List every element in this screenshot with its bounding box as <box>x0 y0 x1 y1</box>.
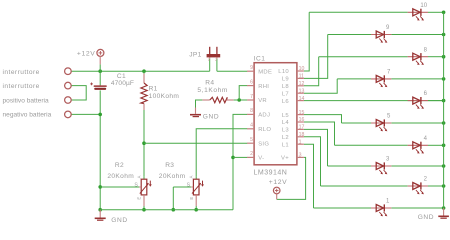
svg-text:L2: L2 <box>282 135 289 141</box>
svg-text:15: 15 <box>299 110 305 116</box>
svg-text:RLO: RLO <box>258 127 271 133</box>
svg-text:1: 1 <box>299 139 302 145</box>
svg-text:R4: R4 <box>205 80 214 87</box>
svg-text:1: 1 <box>208 58 210 62</box>
svg-text:A: A <box>136 175 141 178</box>
svg-text:S: S <box>187 182 191 188</box>
svg-text:4: 4 <box>250 123 253 129</box>
svg-text:16: 16 <box>299 117 305 123</box>
svg-text:L1: L1 <box>282 142 289 148</box>
svg-text:V+: V+ <box>281 156 289 162</box>
svg-text:L9: L9 <box>282 77 289 83</box>
svg-text:+12V: +12V <box>269 179 287 186</box>
svg-text:MDE: MDE <box>258 69 272 75</box>
svg-text:ADJ: ADJ <box>258 113 270 119</box>
svg-text:13: 13 <box>299 88 305 94</box>
svg-text:L8: L8 <box>282 84 290 90</box>
svg-text:4700µF: 4700µF <box>111 80 134 87</box>
svg-text:E: E <box>137 197 142 200</box>
svg-text:2: 2 <box>250 151 253 157</box>
svg-text:SIG: SIG <box>258 141 269 147</box>
svg-text:+12V: +12V <box>77 50 95 57</box>
svg-text:GND: GND <box>111 217 127 224</box>
svg-text:L3: L3 <box>282 128 290 134</box>
svg-text:20Kohm: 20Kohm <box>159 173 186 180</box>
svg-text:2: 2 <box>215 58 217 62</box>
svg-text:5,1Kohm: 5,1Kohm <box>197 87 228 94</box>
svg-text:positivo batteria: positivo batteria <box>3 97 50 104</box>
svg-text:17: 17 <box>299 125 305 131</box>
svg-text:GND: GND <box>203 113 219 120</box>
svg-text:IC1: IC1 <box>254 56 265 63</box>
svg-text:11: 11 <box>299 74 304 80</box>
svg-text:negativo batteria: negativo batteria <box>3 111 52 118</box>
svg-text:100Kohm: 100Kohm <box>149 93 180 100</box>
svg-text:GND: GND <box>418 214 434 221</box>
svg-text:L7: L7 <box>282 91 289 97</box>
svg-text:12: 12 <box>299 81 305 87</box>
svg-text:V-: V- <box>258 156 264 162</box>
svg-text:R2: R2 <box>115 162 124 169</box>
svg-text:R1: R1 <box>149 85 158 92</box>
svg-text:interruttore: interruttore <box>3 83 40 90</box>
svg-text:L5: L5 <box>282 113 290 119</box>
svg-text:L6: L6 <box>282 99 290 105</box>
svg-text:3: 3 <box>299 153 302 159</box>
svg-text:S: S <box>134 182 138 188</box>
svg-text:8: 8 <box>250 108 253 114</box>
svg-text:18: 18 <box>299 132 305 138</box>
svg-text:10: 10 <box>299 66 305 72</box>
svg-text:E: E <box>189 197 194 200</box>
svg-text:A: A <box>189 175 194 178</box>
svg-text:L4: L4 <box>282 120 290 126</box>
svg-text:VR: VR <box>258 98 267 104</box>
svg-text:5: 5 <box>250 137 253 143</box>
svg-text:14: 14 <box>299 96 305 102</box>
svg-text:R3: R3 <box>165 162 174 169</box>
svg-text:6: 6 <box>250 79 253 85</box>
svg-text:JP1: JP1 <box>189 52 201 59</box>
svg-text:L10: L10 <box>278 69 289 75</box>
svg-text:20Kohm: 20Kohm <box>107 173 134 180</box>
svg-text:RHI: RHI <box>258 84 269 90</box>
svg-text:10: 10 <box>420 3 427 9</box>
svg-text:interruttore: interruttore <box>3 69 40 76</box>
svg-text:LM3914N: LM3914N <box>254 169 288 176</box>
svg-text:9: 9 <box>250 65 253 71</box>
svg-text:7: 7 <box>250 94 253 100</box>
